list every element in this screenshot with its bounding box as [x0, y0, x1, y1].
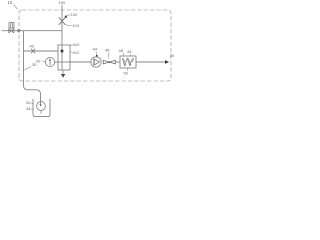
pump P1 — [91, 57, 101, 67]
svg-text:30: 30 — [32, 62, 37, 67]
check valve CV1 (bowtie) — [103, 60, 115, 63]
wire heater to outlet — [136, 61, 166, 63]
tank pump P2 — [37, 102, 46, 111]
wire: left inlet line — [2, 30, 63, 32]
drain line under manifold — [62, 70, 64, 74]
wire: vertical drop pipe to tank — [24, 31, 41, 102]
wire: branch to manifold (y=51) — [24, 50, 59, 52]
leader for label 10 — [14, 5, 18, 10]
valve V3 (X on stem) — [59, 17, 66, 25]
svg-text:49: 49 — [127, 49, 132, 54]
svg-text:104: 104 — [72, 23, 79, 28]
wire gauge to manifold — [55, 61, 58, 63]
svg-text:48: 48 — [119, 48, 124, 53]
svg-text:32: 32 — [26, 100, 31, 105]
gauge G1 — [45, 57, 54, 66]
label 102 — [65, 16, 67, 18]
valve V1 (left inlet bowtie) — [9, 29, 14, 33]
heater element zigzag — [122, 58, 133, 65]
svg-text:42: 42 — [36, 58, 41, 63]
wire: manifold internal horizontal — [58, 61, 70, 63]
svg-text:46: 46 — [105, 48, 110, 53]
svg-text:20: 20 — [170, 53, 175, 58]
drain arrowhead — [61, 74, 66, 78]
svg-text:34: 34 — [26, 106, 31, 111]
label 104 — [65, 24, 72, 26]
wire bowtie to heater — [115, 61, 120, 63]
svg-text:50: 50 — [124, 71, 129, 76]
heater H1 — [120, 56, 136, 68]
wire: inside manifold vertical — [61, 45, 63, 70]
svg-text:44: 44 — [93, 47, 98, 52]
svg-text:40: 40 — [30, 44, 35, 49]
svg-text:10: 10 — [8, 0, 13, 5]
label 110 — [70, 44, 73, 47]
svg-text:110: 110 — [73, 42, 80, 47]
wire: manifold to pump — [70, 61, 91, 63]
tank T1 — [33, 99, 50, 117]
node: inlet crossing enclosure — [18, 30, 20, 32]
svg-text:100: 100 — [59, 0, 66, 5]
outlet arrowhead — [165, 60, 169, 64]
dashed enclosure 10 — [19, 10, 171, 81]
filter F1 (left inlet) — [9, 23, 14, 28]
wire: valve stem line from top — [61, 5, 63, 45]
node junction — [61, 50, 64, 53]
svg-text:112: 112 — [73, 50, 80, 55]
manifold block U1 — [58, 45, 70, 70]
svg-text:102: 102 — [71, 12, 78, 17]
label 112 — [70, 51, 73, 53]
valve V2 on branch line — [31, 49, 35, 54]
